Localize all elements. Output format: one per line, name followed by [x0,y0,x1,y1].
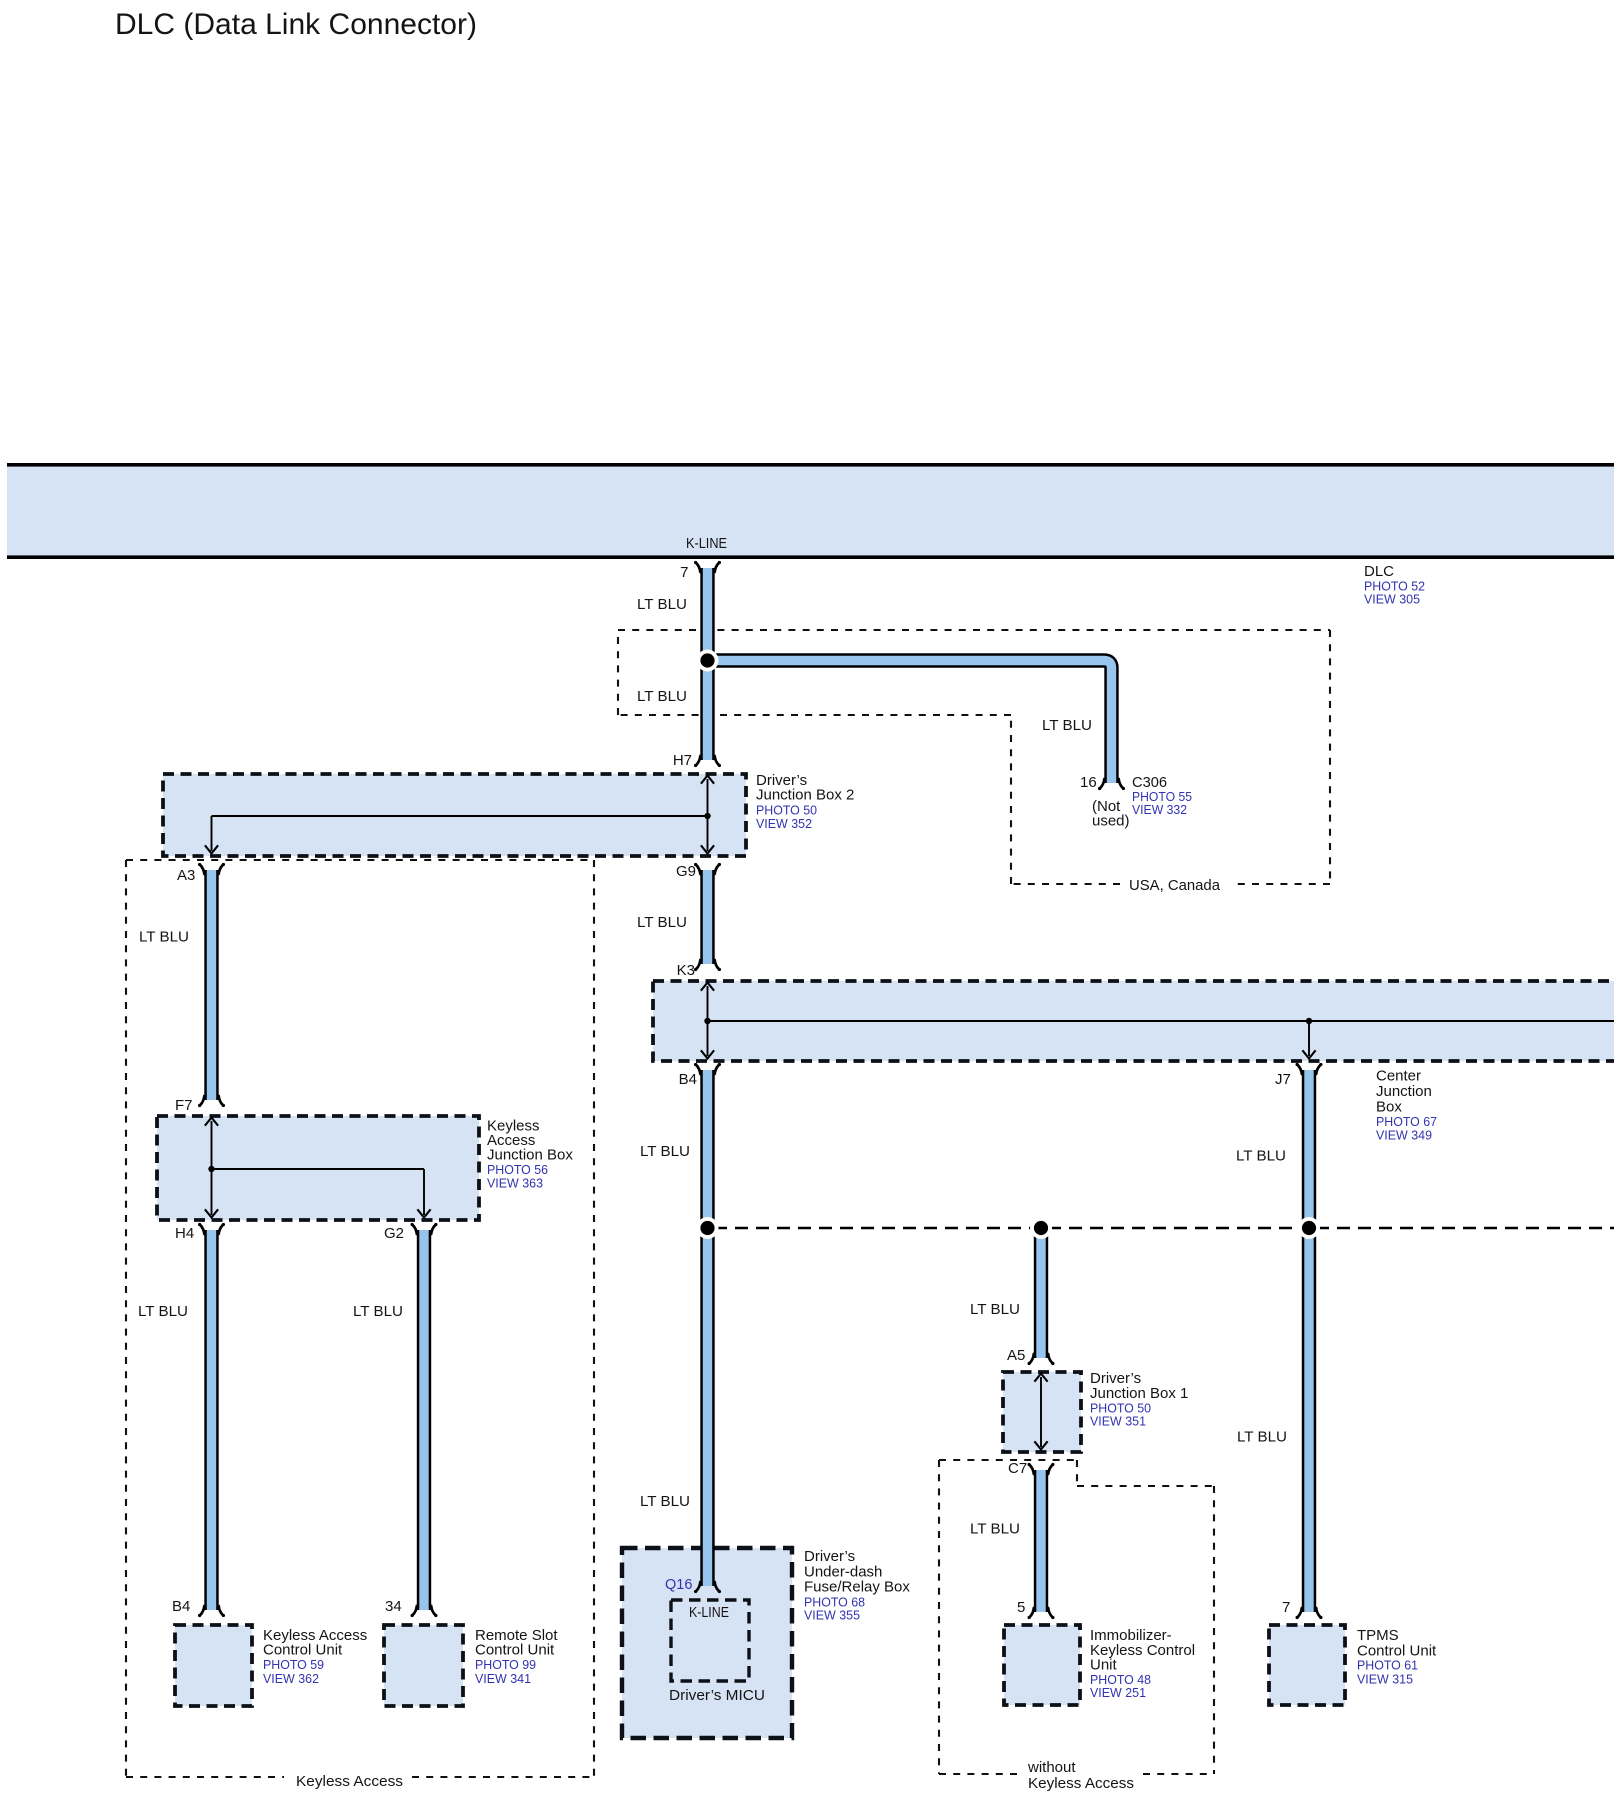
label C306 [1132,774,1192,817]
svg-text:VIEW 351: VIEW 351 [1090,1415,1146,1429]
terminal J7 [1296,1063,1323,1074]
svg-text:PHOTO 99: PHOTO 99 [475,1658,536,1672]
label without Keyless Access region [1027,1759,1134,1792]
svg-text:without: without [1027,1759,1076,1776]
wire K-LINE DLC pin 7 to H7 [700,568,714,760]
svg-text:used): used) [1092,813,1130,830]
wire color label LT BLU 13 [1237,1429,1287,1446]
svg-text:LT BLU: LT BLU [1042,717,1092,734]
svg-text:Fuse/Relay Box: Fuse/Relay Box [804,1579,910,1596]
svg-text:Junction Box 2: Junction Box 2 [756,787,854,804]
terminal G9 [694,863,721,874]
label TPMS Control Unit [1357,1627,1437,1687]
terminal B4 (center junction box) [694,1063,721,1074]
label pin 7 TPMS [1282,1599,1290,1616]
wire splice to A5 [1034,1230,1048,1358]
svg-text:LT BLU: LT BLU [637,596,687,613]
component Keyless Access Control Unit [175,1625,252,1706]
svg-text:K-LINE: K-LINE [689,1604,729,1621]
label pin C7 [1008,1460,1027,1477]
component Driver&#8217;s Under-dash Fuse/Relay Box (MICU) [622,1548,792,1738]
label pin B4 keyless [172,1598,190,1615]
inner K-LINE block of Driver&#8217;s MICU [671,1600,749,1681]
label Driver&#8217;s Under-dash Fuse/Relay Box [804,1548,910,1623]
wire color label LT BLU 1 [637,596,687,613]
wire color label LT BLU 8 [138,1303,188,1320]
label pin G9 [676,863,696,880]
svg-text:VIEW 315: VIEW 315 [1357,1673,1413,1687]
svg-text:Unit: Unit [1090,1657,1118,1674]
terminal H4 [198,1223,225,1234]
svg-text:LT BLU: LT BLU [640,1143,690,1160]
label pin 7 DLC [680,564,688,581]
region boundary without Keyless Access [939,1460,1214,1774]
svg-text:LT BLU: LT BLU [640,1493,690,1510]
splice node to A5 [1030,1217,1052,1239]
wire color label LT BLU 6 [640,1143,690,1160]
wire G9 to K3 [700,870,714,964]
arrow inside Driver&#8217;s Junction Box 1 [1034,1374,1047,1450]
svg-text:LT BLU: LT BLU [970,1521,1020,1538]
svg-text:Box: Box [1376,1099,1402,1116]
label Keyless Access Control Unit [263,1627,367,1686]
label Driver&#8217;s Junction Box 2 [756,772,854,831]
terminal G2 [411,1223,438,1234]
wire J7 to TPMS pin 7 [1302,1070,1316,1612]
svg-text:PHOTO 48: PHOTO 48 [1090,1673,1151,1687]
svg-text:A5: A5 [1007,1347,1025,1364]
svg-text:VIEW 341: VIEW 341 [475,1672,531,1686]
svg-text:VIEW 305: VIEW 305 [1364,593,1420,607]
label pin K3 [677,962,695,979]
label pin A3 [177,867,195,884]
svg-text:7: 7 [1282,1599,1290,1616]
svg-text:16: 16 [1080,774,1097,791]
K-LINE bus band [7,463,1614,559]
svg-text:Control Unit: Control Unit [475,1642,555,1659]
svg-text:USA, Canada: USA, Canada [1129,877,1221,894]
wire color label LT BLU 3 [1042,717,1092,734]
svg-text:Junction Box: Junction Box [487,1147,573,1164]
terminal B4 (keyless access control unit) [198,1606,225,1617]
arrows inside Center Junction Box [701,983,1614,1059]
wire C306 branch (pin 16, not used) [708,661,1112,784]
terminal C7 [1028,1463,1055,1474]
svg-text:PHOTO 61: PHOTO 61 [1357,1659,1418,1673]
svg-text:VIEW 362: VIEW 362 [263,1672,319,1686]
arrows inside Keyless Access Junction Box [205,1118,431,1218]
wire A3 to F7 [204,870,218,1100]
wire color label LT BLU 5 [637,914,687,931]
svg-text:C306: C306 [1132,774,1167,791]
svg-text:LT BLU: LT BLU [1236,1148,1286,1165]
svg-text:TPMS: TPMS [1357,1627,1399,1644]
junction box U2 Keyless Access Junction Box [157,1116,479,1220]
svg-text:Driver’s MICU: Driver’s MICU [669,1687,765,1704]
svg-text:Q16: Q16 [665,1577,692,1593]
svg-text:K3: K3 [677,962,695,979]
label pin F7 [175,1097,193,1114]
wire color label LT BLU 12 [970,1521,1020,1538]
svg-text:G2: G2 [384,1225,404,1242]
svg-text:F7: F7 [175,1097,193,1114]
svg-text:Keyless Access: Keyless Access [296,1773,403,1790]
terminal pin 16 (C306) [1098,779,1125,790]
svg-text:H4: H4 [175,1225,194,1242]
svg-text:B4: B4 [679,1071,697,1088]
svg-text:J7: J7 [1275,1071,1291,1088]
label pin 16 [1080,774,1097,791]
label Center Junction Box [1376,1068,1437,1143]
wire color label LT BLU 10 [970,1301,1020,1318]
wire color label LT BLU 9 [353,1303,403,1320]
label pin A5 [1007,1347,1025,1364]
svg-text:5: 5 [1017,1599,1025,1616]
svg-text:PHOTO 59: PHOTO 59 [263,1658,324,1672]
svg-text:Control Unit: Control Unit [1357,1643,1437,1660]
label pin B4 center [679,1071,697,1088]
terminal K3 [694,960,721,971]
svg-text:LT BLU: LT BLU [353,1303,403,1320]
svg-text:7: 7 [680,564,688,581]
svg-text:LT BLU: LT BLU [1237,1429,1287,1446]
svg-text:VIEW 352: VIEW 352 [756,817,812,831]
wire G2 to pin 34 [417,1230,431,1610]
component Immobilizer-Keyless Control Unit [1004,1625,1080,1705]
svg-text:DLC (Data Link Connector): DLC (Data Link Connector) [115,8,477,41]
label pin G2 [384,1225,404,1242]
terminal pin 5 [1028,1608,1055,1619]
svg-text:Center: Center [1376,1068,1421,1085]
svg-text:Driver’s: Driver’s [804,1548,855,1565]
label Keyless Access Junction Box [487,1118,573,1191]
svg-text:K-LINE: K-LINE [686,535,727,552]
svg-text:VIEW 355: VIEW 355 [804,1609,860,1623]
svg-text:VIEW 251: VIEW 251 [1090,1686,1146,1700]
svg-text:Control Unit: Control Unit [263,1642,343,1659]
svg-text:PHOTO 67: PHOTO 67 [1376,1115,1437,1129]
wire H4 to B4 [204,1230,218,1610]
wire B4 to Q16 [700,1070,714,1586]
svg-text:Junction Box 1: Junction Box 1 [1090,1385,1188,1402]
svg-text:34: 34 [385,1598,402,1615]
label Driver&#8217;s Junction Box 1 [1090,1370,1188,1429]
svg-text:LT BLU: LT BLU [637,914,687,931]
splice node on B4 wire [697,1217,719,1239]
junction box U3 Center Junction Box [653,981,1614,1061]
svg-text:PHOTO 55: PHOTO 55 [1132,790,1192,804]
region boundary Keyless Access [126,860,594,1777]
label pin J7 [1275,1071,1291,1088]
dashed splice link line [714,1227,1614,1230]
svg-text:VIEW 349: VIEW 349 [1376,1129,1432,1143]
svg-text:LT BLU: LT BLU [637,688,687,705]
svg-text:VIEW 332: VIEW 332 [1132,803,1187,817]
svg-text:PHOTO 50: PHOTO 50 [1090,1402,1151,1416]
terminal F7 [198,1096,225,1107]
svg-text:LT BLU: LT BLU [970,1301,1020,1318]
component Remote Slot Control Unit [384,1625,463,1706]
label (Not used) [1092,798,1130,830]
svg-text:C7: C7 [1008,1460,1027,1477]
svg-text:DLC: DLC [1364,563,1394,580]
svg-text:LT BLU: LT BLU [139,929,189,946]
wire color label LT BLU 2 [637,688,687,705]
svg-text:PHOTO 52: PHOTO 52 [1364,580,1425,594]
svg-text:B4: B4 [172,1598,190,1615]
terminal TPMS pin 7 [1296,1608,1323,1619]
junction box U4 Driver&#8217;s Junction Box 1 [1003,1372,1081,1452]
svg-text:A3: A3 [177,867,195,884]
svg-text:PHOTO 68: PHOTO 68 [804,1596,865,1610]
terminal A3 [198,863,225,874]
terminal Q16 [694,1582,721,1593]
component TPMS Control Unit [1269,1625,1345,1705]
terminal pin 7 (DLC) [694,561,721,572]
svg-text:PHOTO 56: PHOTO 56 [487,1163,548,1177]
splice under DLC pin 7 [697,650,719,672]
svg-text:PHOTO 50: PHOTO 50 [756,804,817,818]
svg-text:Keyless Access: Keyless Access [1028,1775,1134,1792]
wire color label LT BLU 7 [1236,1148,1286,1165]
svg-text:H7: H7 [673,752,692,769]
arrows inside Driver&#8217;s Junction Box 2 [205,776,714,854]
wire C7 to pin 5 [1034,1470,1048,1612]
svg-text:LT BLU: LT BLU [138,1303,188,1320]
splice node on J7 wire [1298,1217,1320,1239]
label Immobilizer-Keyless Control Unit [1090,1627,1195,1700]
terminal pin 34 [411,1606,438,1617]
label DLC [1364,563,1425,607]
svg-text:VIEW 363: VIEW 363 [487,1177,543,1191]
label pin 34 [385,1598,402,1615]
svg-text:Junction: Junction [1376,1083,1432,1100]
terminal H7 [694,756,721,767]
wire color label LT BLU 11 [640,1493,690,1510]
junction box U1 Driver&#8217;s Junction Box 2 [163,774,746,856]
region boundary USA, Canada [618,630,1330,884]
label pin H4 [175,1225,194,1242]
terminal A5 [1028,1354,1055,1365]
label pin H7 [673,752,692,769]
svg-text:G9: G9 [676,863,696,880]
label Remote Slot Control Unit [475,1627,558,1686]
label pin 5 [1017,1599,1025,1616]
wire color label LT BLU 4 [139,929,189,946]
